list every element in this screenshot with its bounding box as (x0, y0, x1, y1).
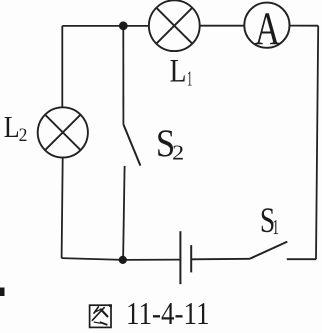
caption character 图 (90, 304, 112, 327)
lamp L1 (149, 0, 200, 51)
switch S2 (open blade) (124, 125, 141, 166)
svg-text:11-4-11: 11-4-11 (126, 295, 210, 331)
label L2 (4, 109, 28, 146)
wire: left side upper, top corner to L2 (61, 26, 63, 108)
svg-text:A: A (255, 4, 281, 55)
wire: right side (316, 26, 318, 260)
label S1 (260, 200, 279, 240)
junction dot: bottom node (119, 256, 127, 264)
svg-text:L: L (170, 53, 187, 89)
junction dot: top node (119, 21, 128, 30)
ammeter A (244, 3, 289, 55)
wire: top, L1 to ammeter (200, 25, 245, 27)
wire: left side lower, L2 to bottom corner (62, 158, 63, 259)
wire: middle branch upper, top node to switch S2 (122, 26, 124, 125)
svg-text:1: 1 (272, 215, 279, 239)
svg-text:1: 1 (187, 66, 192, 90)
label S2 (156, 122, 184, 165)
svg-text:L: L (4, 109, 20, 144)
label L1 (170, 53, 193, 90)
wire: middle branch lower, switch S2 to bottom node (123, 166, 125, 260)
svg-text:2: 2 (19, 125, 28, 146)
wire: bottom right stub, corner to switch S1 (287, 258, 316, 260)
wire: top side, left corner to lamp L1 (62, 25, 149, 27)
scan artifact mark, bottom-left edge (0, 288, 5, 297)
svg-text:2: 2 (172, 140, 184, 164)
wire: top right, ammeter to corner (289, 25, 318, 27)
lamp L2 (38, 107, 88, 157)
wire: bottom left, corner to battery (62, 258, 181, 260)
wire: battery to switch S1 (191, 258, 250, 261)
switch S1 (open blade) (250, 242, 287, 259)
battery (cell): short plate (190, 245, 192, 272)
battery (cell): long plate (179, 231, 181, 284)
